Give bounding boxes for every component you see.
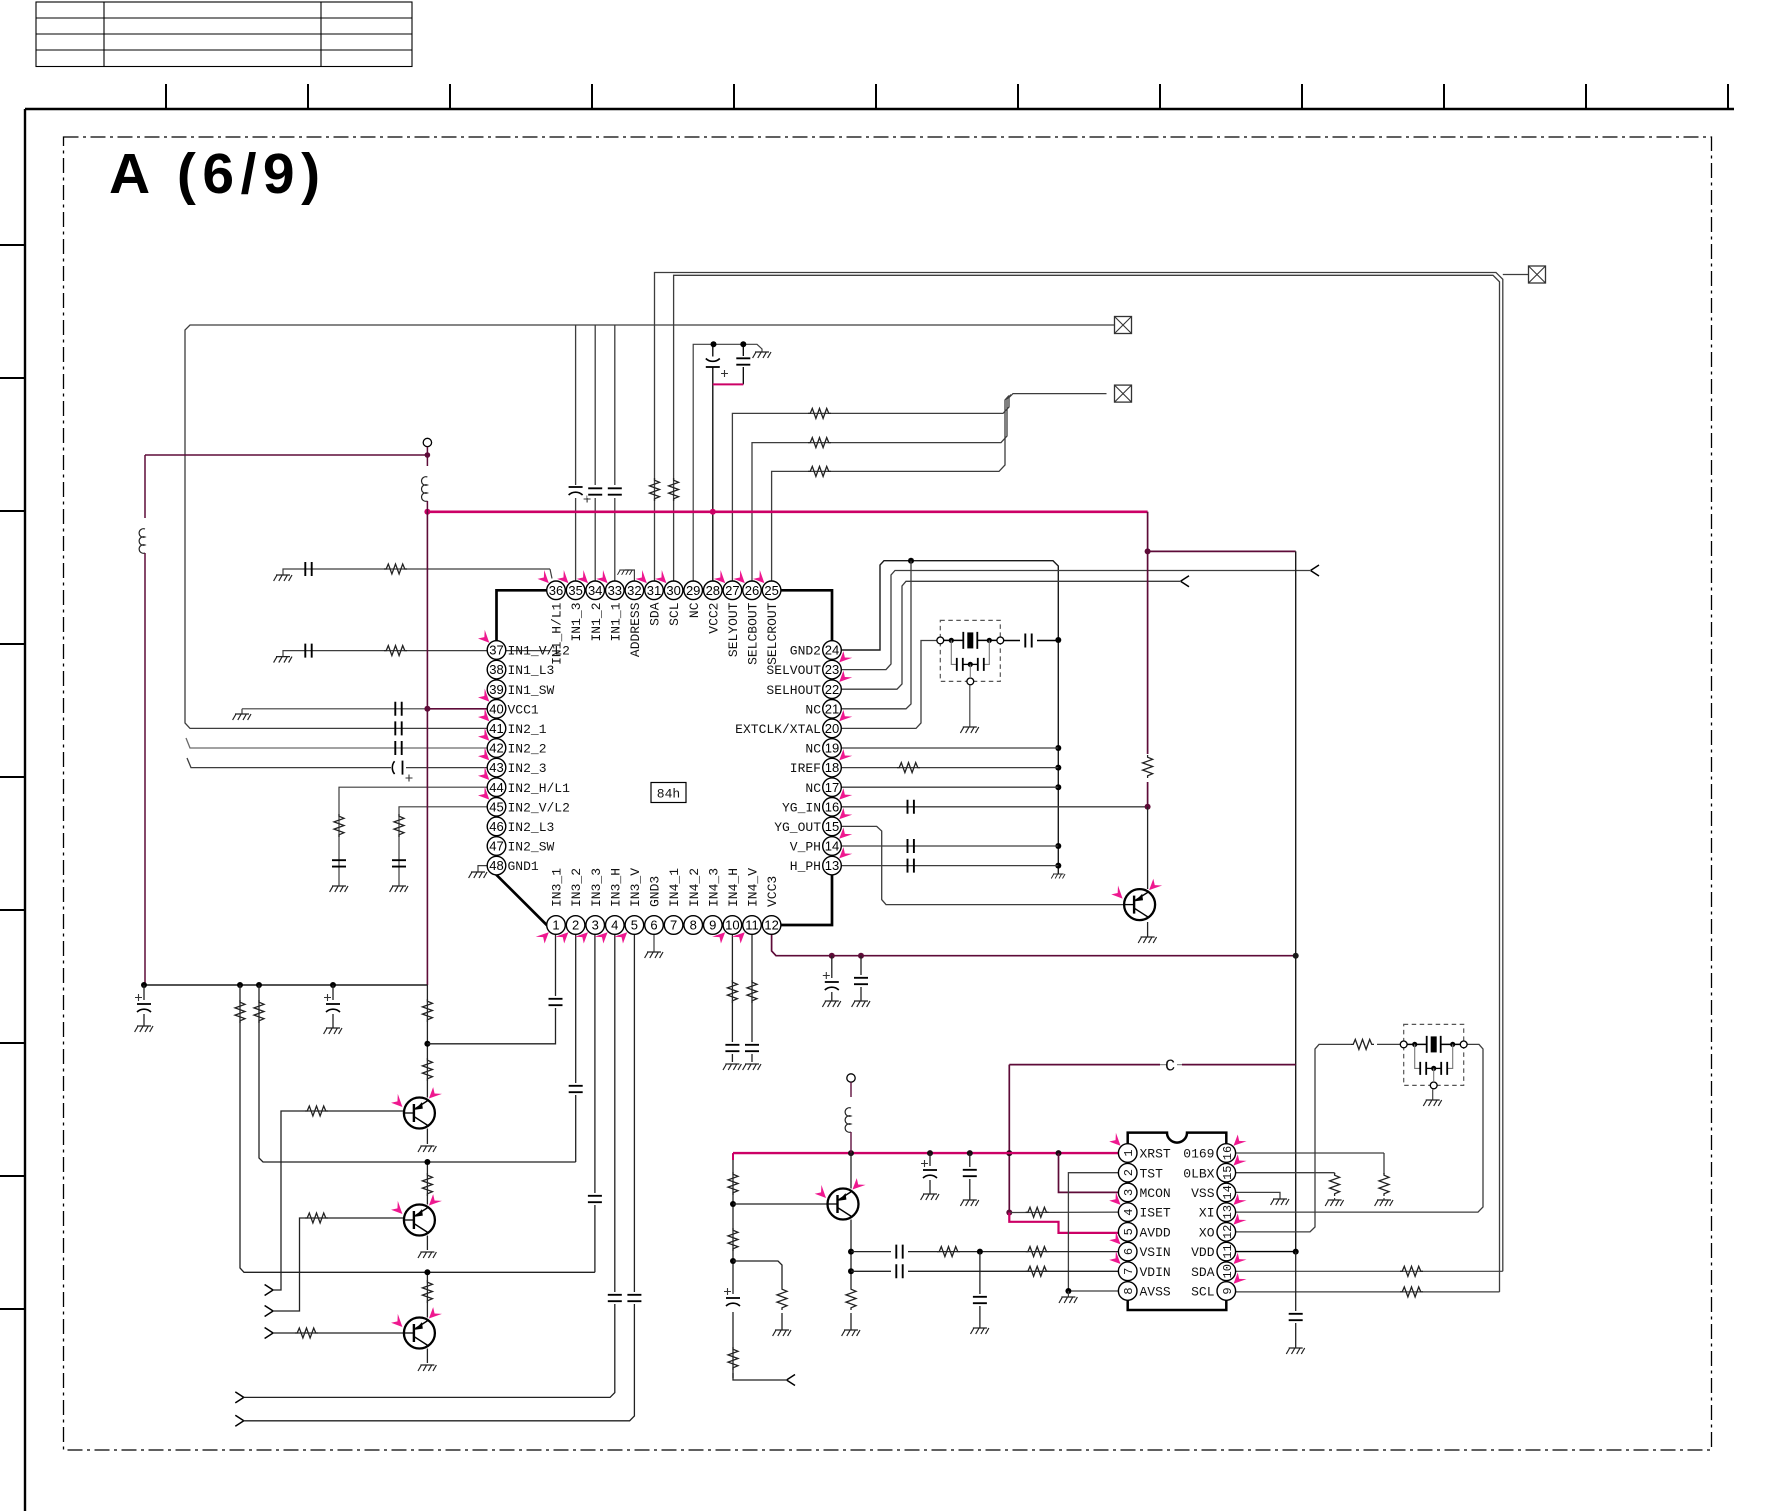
svg-text:38: 38: [489, 662, 503, 677]
svg-text:SELYOUT: SELYOUT: [726, 602, 741, 657]
svg-text:34: 34: [588, 583, 602, 598]
svg-text:2: 2: [572, 918, 579, 933]
svg-text:3: 3: [592, 918, 599, 933]
svg-text:IN3_V: IN3_V: [628, 868, 643, 907]
svg-text:XRST: XRST: [1140, 1147, 1171, 1162]
svg-text:8: 8: [1122, 1287, 1136, 1294]
svg-text:5: 5: [1122, 1228, 1136, 1235]
svg-text:GND1: GND1: [508, 859, 539, 874]
svg-text:IN1_3: IN1_3: [569, 603, 584, 642]
svg-text:22: 22: [825, 682, 839, 697]
svg-text:8: 8: [690, 918, 697, 933]
svg-text:IN1_H/L1: IN1_H/L1: [550, 602, 565, 665]
svg-text:0169: 0169: [1183, 1147, 1214, 1162]
svg-text:31: 31: [647, 583, 661, 598]
svg-text:NC: NC: [805, 781, 821, 796]
svg-text:AVDD: AVDD: [1140, 1225, 1171, 1240]
svg-text:H_PH: H_PH: [790, 859, 821, 874]
svg-text:46: 46: [489, 819, 503, 834]
svg-text:39: 39: [489, 682, 503, 697]
svg-text:9: 9: [709, 918, 716, 933]
svg-text:0LBX: 0LBX: [1183, 1166, 1214, 1181]
svg-text:35: 35: [568, 583, 582, 598]
svg-text:MCON: MCON: [1140, 1186, 1171, 1201]
svg-text:13: 13: [1221, 1205, 1235, 1219]
svg-text:NC: NC: [805, 742, 821, 757]
svg-text:SCL: SCL: [1191, 1285, 1214, 1300]
svg-text:15: 15: [825, 819, 839, 834]
svg-text:AVSS: AVSS: [1140, 1285, 1171, 1300]
svg-text:32: 32: [627, 583, 641, 598]
svg-text:IN4_3: IN4_3: [706, 868, 721, 907]
svg-text:YG_IN: YG_IN: [782, 800, 821, 815]
svg-text:IN1_2: IN1_2: [589, 603, 604, 642]
svg-text:7: 7: [670, 918, 677, 933]
svg-text:18: 18: [825, 760, 839, 775]
svg-text:43: 43: [489, 760, 503, 775]
svg-text:VCC1: VCC1: [508, 702, 539, 717]
svg-text:1: 1: [1122, 1149, 1136, 1156]
svg-text:15: 15: [1221, 1166, 1235, 1180]
svg-text:4: 4: [1122, 1209, 1136, 1216]
svg-text:XO: XO: [1199, 1225, 1215, 1240]
svg-text:6: 6: [650, 918, 657, 933]
svg-text:10: 10: [1221, 1264, 1235, 1278]
svg-text:16: 16: [1221, 1146, 1235, 1160]
svg-text:84h: 84h: [657, 787, 680, 802]
svg-text:48: 48: [489, 858, 503, 873]
svg-text:12: 12: [1221, 1225, 1235, 1239]
svg-text:IN2_1: IN2_1: [508, 722, 547, 737]
svg-text:XI: XI: [1199, 1206, 1215, 1221]
svg-text:45: 45: [489, 799, 503, 814]
svg-text:14: 14: [825, 839, 839, 854]
svg-text:IN4_V: IN4_V: [746, 868, 761, 907]
svg-text:TST: TST: [1140, 1166, 1164, 1181]
svg-text:IN2_H/L1: IN2_H/L1: [508, 781, 571, 796]
svg-text:2: 2: [1122, 1169, 1136, 1176]
svg-text:29: 29: [686, 583, 700, 598]
svg-text:IN2_SW: IN2_SW: [508, 840, 555, 855]
svg-text:21: 21: [825, 701, 839, 716]
svg-text:IN3_2: IN3_2: [569, 868, 584, 907]
svg-text:VCC2: VCC2: [706, 603, 721, 634]
svg-text:44: 44: [489, 780, 503, 795]
svg-text:IN4_1: IN4_1: [667, 868, 682, 907]
svg-text:40: 40: [489, 701, 503, 716]
svg-text:19: 19: [825, 741, 839, 756]
svg-text:SELCROUT: SELCROUT: [765, 602, 780, 665]
svg-text:IN1_1: IN1_1: [608, 602, 623, 641]
svg-text:IREF: IREF: [790, 761, 821, 776]
svg-text:7: 7: [1122, 1268, 1136, 1275]
svg-text:NC: NC: [805, 702, 821, 717]
svg-text:IN2_V/L2: IN2_V/L2: [508, 800, 570, 815]
svg-text:11: 11: [745, 918, 759, 933]
svg-text:SELCBOUT: SELCBOUT: [746, 602, 761, 665]
svg-text:25: 25: [764, 583, 778, 598]
svg-text:3: 3: [1122, 1189, 1136, 1196]
svg-text:36: 36: [549, 583, 563, 598]
svg-text:12: 12: [764, 918, 778, 933]
svg-text:VSS: VSS: [1191, 1186, 1215, 1201]
svg-text:A (6/9): A (6/9): [109, 142, 327, 206]
svg-text:42: 42: [489, 741, 503, 756]
svg-text:IN4_2: IN4_2: [687, 868, 702, 907]
svg-text:ADDRESS: ADDRESS: [628, 602, 643, 657]
svg-text:10: 10: [725, 918, 739, 933]
svg-text:SCL: SCL: [667, 603, 682, 626]
svg-text:17: 17: [825, 780, 839, 795]
svg-text:1: 1: [552, 918, 559, 933]
svg-text:SDA: SDA: [1191, 1265, 1215, 1280]
svg-text:IN3_3: IN3_3: [589, 868, 604, 907]
svg-text:28: 28: [706, 583, 720, 598]
svg-text:13: 13: [825, 858, 839, 873]
svg-text:IN3_1: IN3_1: [550, 868, 565, 907]
svg-text:YG_OUT: YG_OUT: [774, 820, 821, 835]
svg-text:VDIN: VDIN: [1140, 1265, 1171, 1280]
svg-text:NC: NC: [687, 602, 702, 618]
svg-text:IN1_L3: IN1_L3: [508, 663, 555, 678]
svg-text:41: 41: [489, 721, 503, 736]
svg-text:GND2: GND2: [790, 644, 821, 659]
svg-text:ISET: ISET: [1140, 1206, 1171, 1221]
svg-text:IN1_SW: IN1_SW: [508, 683, 555, 698]
svg-text:47: 47: [489, 839, 503, 854]
svg-text:9: 9: [1221, 1287, 1235, 1294]
svg-text:11: 11: [1221, 1244, 1235, 1258]
svg-text:IN4_H: IN4_H: [726, 868, 741, 907]
svg-text:23: 23: [825, 662, 839, 677]
svg-text:GND3: GND3: [648, 876, 663, 907]
svg-text:4: 4: [611, 918, 618, 933]
svg-text:14: 14: [1221, 1185, 1235, 1199]
svg-text:C: C: [1165, 1058, 1175, 1077]
svg-text:16: 16: [825, 799, 839, 814]
svg-text:VCC3: VCC3: [765, 876, 780, 907]
svg-text:IN3_H: IN3_H: [608, 868, 623, 907]
svg-text:IN2_L3: IN2_L3: [508, 820, 555, 835]
svg-text:24: 24: [825, 643, 839, 658]
svg-text:37: 37: [489, 643, 503, 658]
svg-text:20: 20: [825, 721, 839, 736]
svg-text:26: 26: [745, 583, 759, 598]
svg-text:5: 5: [631, 918, 638, 933]
svg-text:27: 27: [725, 583, 739, 598]
svg-text:SDA: SDA: [648, 602, 663, 626]
svg-text:IN2_3: IN2_3: [508, 761, 547, 776]
svg-text:VDD: VDD: [1191, 1245, 1215, 1260]
svg-text:EXTCLK/XTAL: EXTCLK/XTAL: [735, 722, 821, 737]
svg-text:VSIN: VSIN: [1140, 1245, 1171, 1260]
svg-text:SELHOUT: SELHOUT: [766, 683, 821, 698]
svg-text:V_PH: V_PH: [790, 840, 821, 855]
svg-text:IN2_2: IN2_2: [508, 742, 547, 757]
svg-text:6: 6: [1122, 1248, 1136, 1255]
svg-text:30: 30: [666, 583, 680, 598]
svg-text:33: 33: [608, 583, 622, 598]
